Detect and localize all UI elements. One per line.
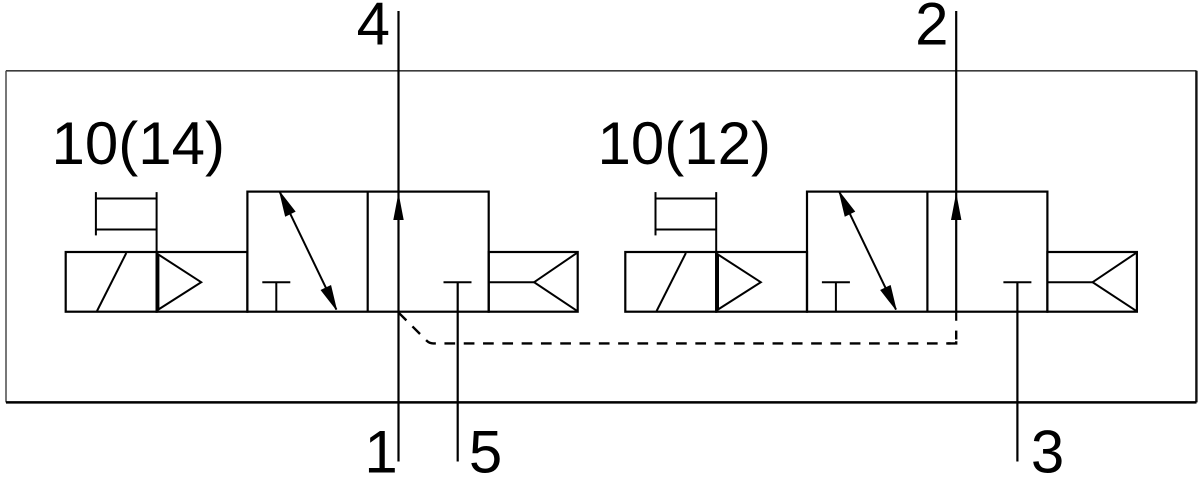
valve V2 body squares (807, 192, 1047, 312)
valve V2 solenoid box (625, 252, 716, 312)
valve V1 flow arrow 1->4 head (394, 196, 403, 220)
valve V1 solenoid diagonal (97, 253, 126, 311)
wire port 3 vertical line (1016, 282, 1018, 461)
valve V1 body squares (247, 192, 488, 312)
valve V1 blocked port T (right square) (444, 281, 472, 283)
dashed pilot link riser dash at valve V2 (955, 331, 957, 340)
dashed pilot link from port line 1-4 to valve V2 pilot (399, 313, 951, 344)
svg-text:4: 4 (357, 0, 390, 57)
svg-text:1: 1 (364, 418, 397, 477)
valve V2 pilot box (716, 252, 807, 312)
svg-text:3: 3 (1031, 418, 1064, 477)
valve V2 spring triangle (1093, 252, 1137, 311)
wire port 4-1 vertical line (397, 11, 399, 462)
valve V2 flow arrow 1->2 head (952, 196, 961, 220)
valve V2 spring-return box (1047, 252, 1137, 312)
valve V2 blocked port T (right square) (1003, 281, 1031, 283)
valve V1 solenoid box (66, 252, 157, 312)
valve V2 crossed flow arrow (left square, double-headed) (839, 192, 896, 310)
valve V1 pilot triangle (158, 255, 201, 310)
dashed pilot link corner dash at valve V2 riser (948, 341, 957, 343)
enclosure box (manifold outline) (6, 71, 1197, 403)
wire port 2 vertical line (955, 11, 957, 321)
svg-text:5: 5 (469, 418, 502, 477)
valve V2 manual override (655, 192, 657, 235)
svg-text:10(12): 10(12) (598, 110, 771, 177)
svg-text:10(14): 10(14) (52, 110, 225, 177)
svg-text:2: 2 (915, 0, 948, 57)
valve V1 body divider (367, 192, 369, 312)
valve V1 spring-return box (489, 252, 578, 312)
valve V1 crossed flow arrow (left square, double-headed) (280, 192, 337, 310)
valve V2 body divider (926, 192, 928, 312)
wire port 5 vertical line (457, 282, 459, 461)
valve V1 manual override (95, 192, 97, 235)
valve V1 pilot box (157, 252, 248, 312)
valve V2 blocked port T (left square) (835, 282, 837, 311)
valve V2 solenoid diagonal (657, 253, 686, 311)
valve V1 spring triangle (534, 252, 578, 311)
valve V2 pilot triangle (718, 255, 761, 310)
valve V1 blocked port T (left square) (275, 282, 277, 311)
